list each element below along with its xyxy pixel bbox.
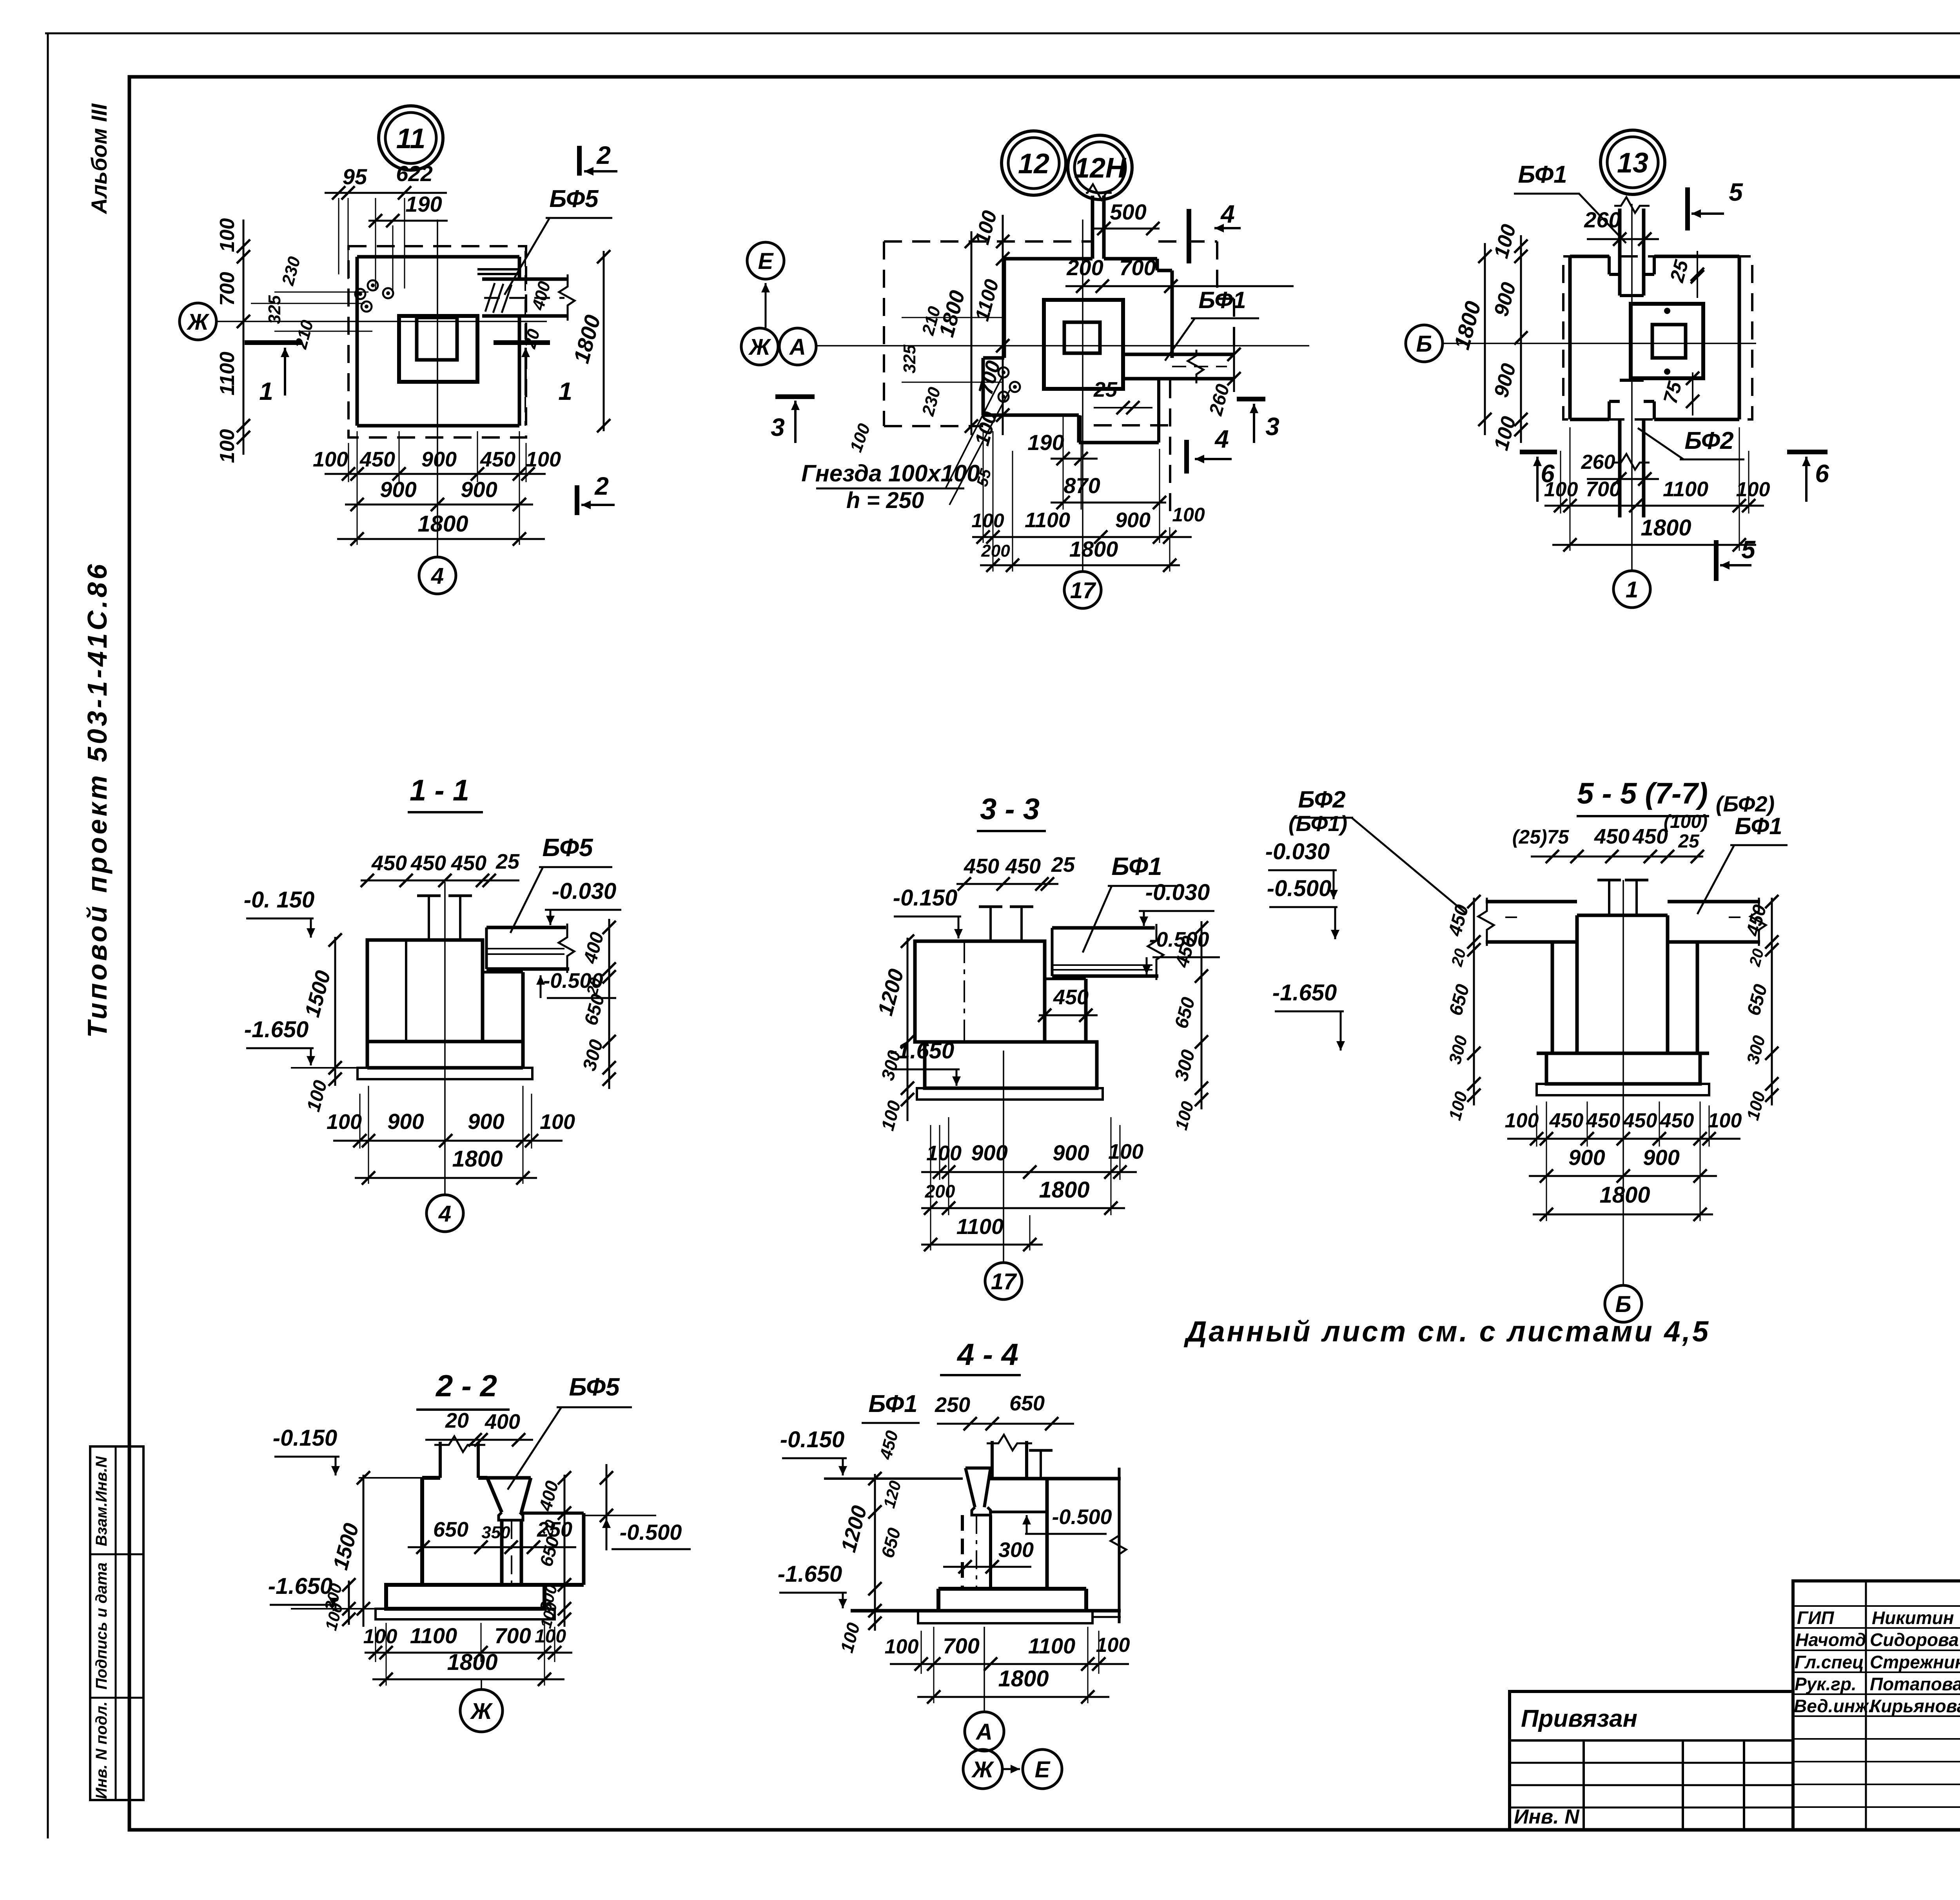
svg-text:2: 2 [596, 141, 611, 169]
node 12 axis arrow to E [765, 283, 767, 328]
svg-text:100: 100 [1736, 478, 1770, 501]
svg-text:Потапова: Потапова [1870, 1674, 1960, 1694]
node 13 left dim chain [1520, 235, 1522, 443]
section 4-4 beam taper socket [965, 1466, 991, 1470]
svg-text:25: 25 [1051, 853, 1075, 877]
svg-text:Инв. N: Инв. N [1514, 1806, 1580, 1828]
node 12 axis circle A [779, 328, 816, 365]
outer border left [47, 33, 49, 1838]
svg-text:-1.650: -1.650 [268, 1573, 332, 1599]
node 13 dim 260 bottom [1587, 478, 1659, 480]
svg-text:4: 4 [438, 1201, 451, 1227]
svg-text:5 - 5 (7-7): 5 - 5 (7-7) [1577, 777, 1708, 810]
section 5-5 anchor bolts [1608, 880, 1610, 915]
node 11 section flag 2 bottom [575, 485, 579, 515]
section 2-2 inner dims 650 350 250 [408, 1546, 576, 1548]
svg-text:100: 100 [1096, 1634, 1130, 1657]
svg-text:БФ5: БФ5 [542, 833, 593, 862]
node 12 horizontal axis line [817, 345, 1309, 347]
svg-text:1800: 1800 [998, 1666, 1049, 1691]
svg-text:622: 622 [396, 161, 432, 186]
svg-text:100: 100 [216, 218, 239, 252]
title block left sub-table [1510, 1691, 1793, 1830]
svg-text:1100: 1100 [956, 1214, 1004, 1239]
svg-text:Ж: Ж [470, 1699, 493, 1724]
svg-text:-0.030: -0.030 [1265, 839, 1330, 864]
svg-text:2 - 2: 2 - 2 [435, 1368, 497, 1403]
node 12 dashed plate outline [884, 240, 1093, 243]
node 13 column pocket bottom [1608, 401, 1611, 419]
node 12 small dims 210 325 230 [902, 317, 1004, 318]
svg-text:1800: 1800 [1069, 537, 1118, 561]
svg-text:13: 13 [1617, 147, 1648, 179]
svg-text:450: 450 [1586, 1109, 1621, 1132]
section 4-4 axis line [984, 1627, 985, 1712]
svg-text:25: 25 [1678, 831, 1700, 852]
svg-text:Ж: Ж [186, 309, 210, 335]
svg-text:Ж: Ж [748, 334, 771, 360]
svg-text:900: 900 [387, 1109, 424, 1134]
svg-text:БФ5: БФ5 [549, 185, 599, 212]
svg-text:450: 450 [451, 851, 486, 875]
section 1-1 bottom extensions [359, 1094, 361, 1149]
section 1-1 beam BF5 [486, 926, 566, 929]
svg-text:700: 700 [1586, 477, 1621, 501]
svg-text:12: 12 [1018, 148, 1049, 180]
svg-text:100: 100 [216, 429, 239, 463]
svg-text:4 - 4: 4 - 4 [956, 1337, 1018, 1372]
svg-text:300: 300 [998, 1538, 1034, 1562]
svg-text:5: 5 [1729, 178, 1743, 206]
section 4-4 axis circle Zh [963, 1749, 1002, 1789]
section 1-1 right dim chain [608, 919, 610, 1089]
node 11 left dim chain [243, 220, 245, 455]
svg-text:200: 200 [925, 1181, 955, 1201]
svg-text:450: 450 [410, 851, 446, 875]
svg-text:900: 900 [461, 477, 497, 502]
svg-text:100: 100 [327, 1110, 362, 1134]
svg-text:450: 450 [964, 855, 999, 878]
node 13 bottom column BF2 [1618, 419, 1622, 517]
svg-text:А: А [975, 1719, 993, 1745]
section 4-4 lean concrete plate [918, 1611, 1093, 1623]
svg-text:1: 1 [558, 377, 572, 405]
section 2-2 right dim chain [564, 1475, 566, 1627]
svg-text:h = 250: h = 250 [846, 488, 924, 513]
section 1-1 anchor bolts [428, 896, 430, 940]
svg-text:325: 325 [900, 345, 919, 374]
section 4-4 dim 300 [943, 1566, 1031, 1568]
section 2-2 ledge right [521, 1512, 584, 1515]
section 2-2 bottom chain 2 [372, 1679, 564, 1680]
section 2-2 beam taper socket [487, 1476, 531, 1480]
svg-text:20: 20 [445, 1409, 469, 1432]
section 3-3 bottom chain 2 [921, 1207, 1125, 1209]
node 12 pedestal [1044, 300, 1123, 389]
section 2-2 lean concrete plate [376, 1609, 555, 1619]
svg-text:3: 3 [771, 413, 785, 441]
section 4-4 column below taper [961, 1515, 964, 1589]
svg-text:БФ2: БФ2 [1298, 786, 1345, 813]
svg-text:11: 11 [396, 123, 426, 154]
svg-text:190: 190 [405, 192, 442, 216]
svg-text:1100: 1100 [1028, 1633, 1075, 1658]
node 11 dim extension verticals [338, 198, 339, 274]
section 3-3 bottom chain 3 [921, 1244, 1043, 1246]
node 13 marker circle [1601, 130, 1665, 194]
svg-text:-1.650: -1.650 [778, 1561, 842, 1587]
svg-text:450: 450 [1005, 855, 1041, 878]
node 11 axis circle 4 [419, 557, 456, 594]
section 3-3 axis circle 17 [985, 1263, 1022, 1299]
svg-text:900: 900 [468, 1109, 504, 1134]
section 1-1 base block [367, 1040, 523, 1043]
svg-text:100: 100 [971, 510, 1004, 532]
node 11 small dims 230 325 210 [274, 292, 368, 293]
svg-text:1100: 1100 [410, 1623, 457, 1648]
svg-text:-0.150: -0.150 [893, 885, 957, 911]
node 11 bottom dim chain 1 [325, 473, 546, 475]
node 12 marker circle [1002, 131, 1066, 195]
node 13 column pocket top [1608, 256, 1611, 274]
svg-text:190: 190 [1027, 430, 1064, 455]
svg-text:(25)75: (25)75 [1512, 826, 1570, 848]
node 11 section flag 1 right [494, 340, 550, 345]
node 13 dashed plate outline [1563, 256, 1752, 419]
node 13 top column BF1 [1618, 209, 1622, 296]
node 13 pedestal [1631, 304, 1703, 378]
section 4-4 ledge [989, 1511, 1049, 1513]
svg-text:Гл.спец: Гл.спец [1795, 1652, 1864, 1672]
node 12 bottom chain 2 [980, 564, 1180, 566]
svg-text:1800: 1800 [452, 1146, 503, 1172]
svg-text:БФ2: БФ2 [1684, 427, 1733, 454]
section 2-2 top dims 20 400 [425, 1439, 533, 1441]
svg-text:Сидорова: Сидорова [1870, 1630, 1959, 1650]
svg-text:100: 100 [1172, 504, 1205, 526]
section 3-3 bottom chain 1 [921, 1171, 1137, 1173]
node 11 pedestal socket [417, 318, 457, 360]
section 1-1 axis circle 4 [426, 1195, 463, 1232]
svg-text:900: 900 [1053, 1140, 1089, 1165]
svg-text:100: 100 [1108, 1140, 1143, 1163]
section 2-2 axis line [481, 1679, 482, 1689]
section 1-1 bottom chain 1 [333, 1140, 563, 1142]
section 3-3 right dim chain [1201, 921, 1203, 1109]
svg-text:1 - 1: 1 - 1 [410, 774, 469, 807]
section 5-5 tier walls [1551, 942, 1554, 1053]
svg-text:1: 1 [259, 377, 273, 405]
svg-text:1: 1 [1626, 577, 1638, 602]
svg-text:12Н: 12Н [1074, 152, 1127, 184]
svg-text:-0.500: -0.500 [620, 1520, 682, 1544]
svg-text:1100: 1100 [1025, 508, 1070, 532]
node 12 axis circle 17 [1064, 572, 1101, 608]
svg-text:А: А [789, 334, 806, 360]
node 11 anchor sockets [368, 280, 378, 290]
svg-text:6: 6 [1815, 459, 1829, 488]
node 13 outer dim 1800 [1484, 243, 1486, 435]
section 3-3 ledge under beam [1045, 978, 1086, 980]
svg-text:3 - 3: 3 - 3 [980, 793, 1040, 826]
node 11 dim 190 [368, 220, 448, 222]
svg-text:900: 900 [1643, 1145, 1679, 1170]
title block staff table [1793, 1581, 1960, 1830]
node 12 column 12H [1091, 196, 1094, 259]
node 11 right dim 1800 vertical [603, 251, 605, 431]
svg-text:100: 100 [363, 1625, 397, 1648]
node 11 pedestal [399, 316, 477, 382]
node 13 vertical axis line [1631, 204, 1633, 571]
node 13 body outline [1570, 255, 1609, 258]
svg-text:900: 900 [1568, 1145, 1605, 1170]
svg-text:-0. 150: -0. 150 [244, 887, 315, 913]
section 5-5 floor slab left [1486, 900, 1577, 904]
section 2-2 right outer chain [606, 1464, 608, 1550]
svg-text:БФ5: БФ5 [569, 1373, 620, 1401]
section 2-2 base block [386, 1583, 584, 1587]
node 11 bottom extension lines [348, 443, 349, 482]
svg-text:25: 25 [495, 850, 520, 873]
section 3-3 dim 450 under beam [1039, 1014, 1098, 1016]
svg-text:4: 4 [431, 563, 444, 589]
svg-text:250: 250 [935, 1393, 970, 1417]
section 5-5 top dims [1531, 856, 1703, 858]
section 4-4 bottom chain 2 [917, 1696, 1109, 1698]
left stamp table [90, 1446, 143, 1800]
section 3-3 top dims [956, 883, 1058, 885]
section 3-3 bottom extensions [939, 1125, 940, 1180]
section 5-5 axis line [1622, 880, 1624, 1284]
node 12 left dim chain [1002, 215, 1004, 435]
section 1-1 left dim chain [334, 937, 336, 1086]
node 13 pedestal bolts [1664, 308, 1670, 314]
section 4-4 bottom extensions [921, 1631, 922, 1674]
svg-text:400: 400 [485, 1410, 520, 1434]
section 5-5 bottom chain 2 [1529, 1175, 1717, 1177]
section 3-3 lean concrete plate [917, 1088, 1103, 1100]
section 4-4 top dims 250 650 [937, 1423, 1074, 1425]
svg-text:450: 450 [1053, 985, 1089, 1009]
svg-text:25: 25 [1093, 378, 1118, 401]
svg-text:3: 3 [1265, 412, 1279, 441]
svg-text:-1.650: -1.650 [244, 1017, 309, 1042]
svg-text:-0.500: -0.500 [1052, 1505, 1112, 1529]
svg-text:450: 450 [371, 851, 407, 875]
svg-text:95: 95 [343, 164, 367, 189]
svg-text:325: 325 [265, 295, 284, 324]
section 2-2 column below taper [500, 1520, 504, 1585]
svg-text:1800: 1800 [1641, 515, 1691, 541]
section 1-1 top dims 450 450 450 25 [361, 880, 519, 882]
section 2-2 left dim chain [363, 1475, 365, 1627]
section 3-3 beam BF1 [1052, 926, 1155, 930]
section 2-2 left micro chain [348, 1581, 350, 1625]
node 13 axis circle 1 [1613, 571, 1650, 608]
section 1-1 ledge under beam [483, 971, 523, 974]
svg-text:900: 900 [380, 477, 416, 502]
node 11 top dim 95 622 [325, 192, 447, 194]
svg-text:200: 200 [1066, 255, 1103, 280]
node 12 body outline [1004, 257, 1093, 261]
svg-text:1800: 1800 [1039, 1177, 1089, 1203]
svg-text:450: 450 [1549, 1109, 1584, 1132]
node 11 section flag 2 top [577, 146, 582, 176]
section 4-4 left dim chain [874, 1474, 876, 1631]
node 12 section flag 4 bottom [1184, 440, 1189, 474]
svg-text:Б: Б [1416, 331, 1432, 357]
svg-text:-0.030: -0.030 [1145, 880, 1210, 905]
svg-text:-1.650: -1.650 [1272, 980, 1337, 1005]
node 11 marker circle [379, 106, 443, 170]
node 11 beam BF5 [482, 278, 568, 281]
node 12 beam dashes [1172, 366, 1227, 367]
svg-text:Начотд: Начотд [1795, 1630, 1866, 1650]
svg-text:Е: Е [1035, 1757, 1051, 1782]
svg-text:450: 450 [1623, 1109, 1657, 1132]
svg-text:700: 700 [216, 272, 239, 306]
svg-text:БФ1: БФ1 [1735, 813, 1782, 839]
svg-text:700: 700 [494, 1623, 531, 1648]
svg-text:Инв. N подл.: Инв. N подл. [93, 1702, 110, 1799]
node 11 vertical axis line [437, 220, 438, 557]
section 2-2 body left edge [420, 1478, 424, 1585]
svg-text:Подпись и дата: Подпись и дата [93, 1562, 110, 1689]
svg-text:БФ1: БФ1 [868, 1390, 917, 1417]
node 13 horizontal axis line [1443, 343, 1756, 344]
svg-text:100: 100 [1708, 1109, 1742, 1132]
svg-text:700: 700 [1119, 255, 1156, 280]
svg-text:Типовой проект 503-1-41С.86: Типовой проект 503-1-41С.86 [82, 561, 113, 1038]
section 1-1 lean concrete plate [358, 1068, 532, 1079]
svg-text:100: 100 [313, 448, 348, 471]
section 2-2 bottom extensions [375, 1627, 376, 1662]
svg-text:900: 900 [421, 448, 457, 471]
section 5-5 bottom chain 3 [1533, 1214, 1713, 1216]
node 13 section flag 5 bottom [1714, 540, 1719, 581]
node 11 section flag 1 left [245, 340, 302, 345]
node 13 bottom chain 2 [1552, 544, 1756, 546]
svg-text:260: 260 [1581, 451, 1615, 474]
svg-text:260: 260 [1584, 207, 1621, 232]
svg-text:1100: 1100 [1663, 477, 1708, 501]
svg-text:Привязан: Привязан [1521, 1705, 1637, 1732]
section 3-3 axis line [1003, 1051, 1004, 1261]
svg-text:1800: 1800 [447, 1650, 497, 1675]
section 3-3 base block [915, 1040, 1086, 1044]
section 2-2 column stub above [439, 1442, 442, 1478]
outer border top [45, 33, 1960, 34]
node 11 bottom dim chain 3 [337, 538, 545, 540]
node 12 bottom extensions [983, 431, 984, 543]
node 11 axis circle Zh [180, 303, 216, 340]
section 4-4 axis circle E [1023, 1749, 1062, 1789]
node 13 axis circle B [1406, 325, 1443, 362]
svg-text:(БФ1): (БФ1) [1289, 811, 1347, 836]
svg-text:Кирьянова: Кирьянова [1870, 1696, 1960, 1716]
section 4-4 axis circle A [965, 1712, 1004, 1751]
svg-text:4: 4 [1220, 200, 1235, 228]
node 12 section flag 3 right [1237, 397, 1265, 401]
section 5-5 pillar [1577, 914, 1668, 917]
section 2-2 axis circle Zh [460, 1689, 503, 1732]
svg-text:100: 100 [885, 1635, 919, 1658]
node 12 axis circle E [747, 242, 784, 279]
node 12 beam BF1 [1123, 353, 1234, 356]
svg-text:(100): (100) [1664, 811, 1708, 832]
node 11 horizontal axis Zh line [216, 321, 547, 322]
section 2-2 bottom chain 1 [365, 1652, 572, 1654]
svg-text:Взам.Инв.N: Взам.Инв.N [93, 1456, 110, 1546]
svg-text:100: 100 [535, 1626, 566, 1647]
svg-text:Е: Е [758, 249, 774, 274]
section 2-2 foundation top [359, 1477, 422, 1479]
node 12 outer dim 1800 [971, 231, 973, 435]
svg-text:900: 900 [971, 1140, 1007, 1165]
svg-text:450: 450 [1660, 1109, 1694, 1132]
section 3-3 pillar [915, 941, 1045, 1042]
node 12 dim 190 [1051, 458, 1098, 460]
svg-text:(БФ2): (БФ2) [1716, 791, 1775, 816]
section 1-1 bottom chain 2 [355, 1177, 537, 1179]
node 13 section flag 6 left [1520, 450, 1557, 454]
node 11 dashed foundation plate outline [348, 246, 526, 437]
section 1-1 pillar [367, 940, 483, 1042]
svg-text:-0.150: -0.150 [273, 1425, 337, 1451]
node 12 dim 500 [1094, 228, 1160, 230]
svg-text:100: 100 [926, 1141, 962, 1165]
svg-text:4: 4 [1214, 425, 1229, 453]
section 5-5 lean concrete plate [1537, 1084, 1709, 1095]
svg-text:450: 450 [359, 448, 395, 471]
section 5-5 floor slab right [1668, 900, 1760, 904]
svg-text:6: 6 [1541, 459, 1555, 488]
svg-text:650: 650 [1009, 1392, 1045, 1415]
node 13 section flag 6 right [1787, 450, 1828, 454]
node 12 vertical axis line [1082, 220, 1083, 570]
node 12 bottom chain 1 [972, 536, 1192, 538]
svg-text:870: 870 [1063, 473, 1100, 498]
node 13 bottom extensions [1560, 451, 1561, 514]
svg-text:БФ1: БФ1 [1198, 287, 1246, 313]
svg-text:1100: 1100 [216, 352, 239, 396]
node 12 beam dim 260 [1233, 345, 1235, 392]
section 5-5 left dim chain [1473, 898, 1475, 1105]
section 5-5 base block [1537, 1052, 1709, 1055]
svg-text:Б: Б [1615, 1292, 1631, 1317]
svg-text:-0.150: -0.150 [780, 1427, 844, 1452]
section 4-4 arrow Zh to E [1003, 1768, 1020, 1770]
node 13 section flag 5 top [1685, 187, 1690, 230]
svg-text:БФ1: БФ1 [1111, 852, 1162, 880]
svg-text:1800: 1800 [417, 511, 468, 537]
svg-text:-0.500: -0.500 [1267, 876, 1331, 901]
section 5-5 axis circle B [1605, 1285, 1642, 1322]
section 4-4 base block [938, 1587, 1086, 1591]
node 11 bottom dim chain 2 [345, 504, 533, 506]
svg-text:100: 100 [526, 448, 561, 471]
node 13 bottom chain 1 [1544, 505, 1764, 507]
node 11 ledge lines [477, 268, 518, 270]
section 4-4 bottom chain 1 [890, 1663, 1129, 1665]
svg-text:350: 350 [481, 1523, 510, 1542]
node 12 section flag 4 top [1187, 209, 1191, 263]
svg-text:450: 450 [480, 448, 515, 471]
section 4-4 foundation top [824, 1477, 963, 1480]
svg-text:Вед.инж.: Вед.инж. [1794, 1696, 1873, 1716]
node 12 anchor sockets [998, 367, 1009, 377]
section 5-5 bottom extensions [1536, 1105, 1537, 1147]
